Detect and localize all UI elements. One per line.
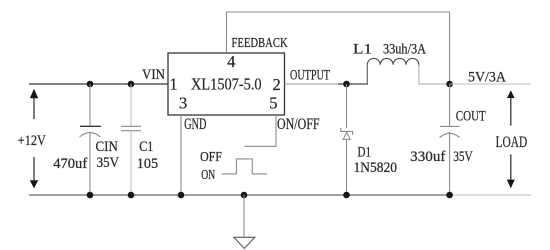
svg-text:105: 105 xyxy=(137,156,158,172)
svg-text:COUT: COUT xyxy=(456,109,486,125)
wire output rail right xyxy=(450,83,531,85)
diode D1 1N5820 xyxy=(341,84,353,195)
svg-text:33uh/3A: 33uh/3A xyxy=(383,41,426,57)
node C1 bottom xyxy=(128,192,135,199)
IC U1 XL1507-5.0 buck regulator box xyxy=(168,53,285,115)
svg-text:470uf: 470uf xyxy=(53,156,87,172)
+12V source arrow xyxy=(30,89,38,189)
wire inductor to output node xyxy=(419,83,450,85)
svg-text:35V: 35V xyxy=(453,149,473,165)
svg-text:5V/3A: 5V/3A xyxy=(468,70,506,86)
svg-text:VIN: VIN xyxy=(142,67,165,83)
wire top-left input rail xyxy=(29,83,168,85)
node diode junction top xyxy=(343,81,350,88)
svg-text:+12V: +12V xyxy=(18,133,46,149)
svg-text:3: 3 xyxy=(179,94,187,113)
node CIN bottom xyxy=(87,192,94,199)
capacitor COUT (electrolytic) xyxy=(440,84,460,195)
svg-text:D1: D1 xyxy=(358,145,372,161)
wire output pin2 xyxy=(285,83,339,85)
svg-text:2: 2 xyxy=(272,75,280,94)
svg-text:LOAD: LOAD xyxy=(496,134,528,151)
svg-text:OUTPUT: OUTPUT xyxy=(290,68,330,84)
node VIN junction CIN xyxy=(87,81,94,88)
svg-text:1N5820: 1N5820 xyxy=(354,160,398,176)
node ground stem xyxy=(241,192,248,199)
LOAD arrow xyxy=(507,90,515,188)
svg-text:GND: GND xyxy=(184,116,206,133)
wire bottom rail right light xyxy=(450,194,531,196)
svg-text:330uf: 330uf xyxy=(410,149,445,165)
svg-text:4: 4 xyxy=(227,52,235,71)
capacitor CIN (electrolytic) xyxy=(80,84,102,195)
node VIN junction C1 xyxy=(128,81,135,88)
svg-text:ON/OFF: ON/OFF xyxy=(277,116,320,133)
svg-text:FEEDBACK: FEEDBACK xyxy=(231,36,287,51)
svg-text:CIN: CIN xyxy=(96,139,119,155)
svg-text:35V: 35V xyxy=(97,155,120,171)
ground xyxy=(234,237,255,248)
wire ground stem xyxy=(243,195,245,237)
wire feedback loop xyxy=(227,12,450,84)
node output junction xyxy=(446,81,453,88)
capacitor C1 (ceramic) xyxy=(121,84,141,195)
wire ON/OFF pin5 elbow xyxy=(245,115,277,146)
inductor L1 xyxy=(367,58,419,84)
svg-text:XL1507-5.0: XL1507-5.0 xyxy=(191,75,262,94)
svg-text:ON: ON xyxy=(201,168,215,183)
svg-text:L1: L1 xyxy=(353,41,372,57)
svg-text:5: 5 xyxy=(269,94,277,113)
waveform on/off square pulse xyxy=(222,159,267,174)
node GND pin bottom xyxy=(178,192,185,199)
svg-text:OFF: OFF xyxy=(200,150,222,165)
wire bottom ground rail xyxy=(29,194,450,196)
node COUT bottom xyxy=(446,192,453,199)
wire GND pin3 xyxy=(180,115,182,195)
svg-text:C1: C1 xyxy=(139,139,153,155)
svg-text:1: 1 xyxy=(169,74,177,93)
node D1 bottom xyxy=(343,192,350,199)
